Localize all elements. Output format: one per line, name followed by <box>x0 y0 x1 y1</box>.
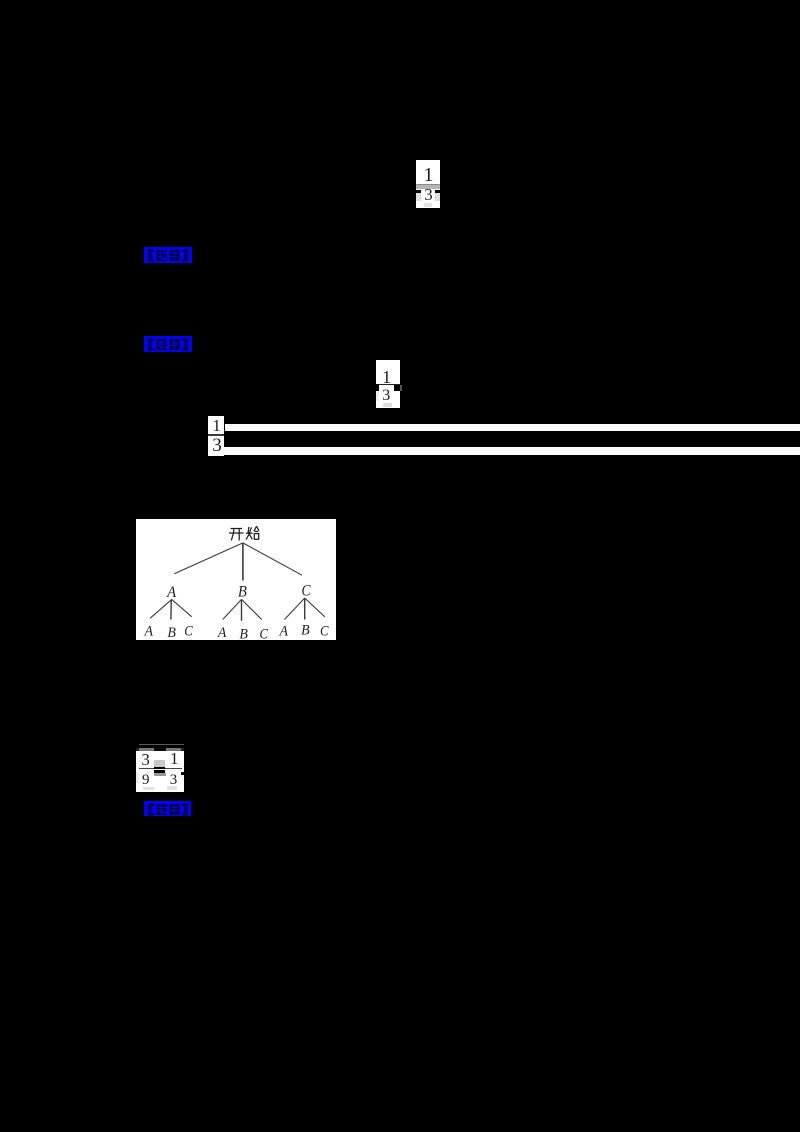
svg-text:C: C <box>184 624 193 640</box>
svg-text:B: B <box>301 622 310 638</box>
branches level 2 <box>150 598 325 621</box>
small fraction 1/3 at line start <box>208 416 224 456</box>
开 <box>229 529 244 541</box>
branches level 1 <box>174 543 302 581</box>
blue label 3 <box>144 801 191 817</box>
level-2 labels <box>166 583 311 602</box>
equation image: 3/9 = 1/3 <box>139 744 184 745</box>
svg-text:B: B <box>238 584 247 601</box>
svg-text:A: A <box>279 624 289 640</box>
white bar row 1 <box>225 424 800 432</box>
equation image: fraction 1/3 (second) <box>376 360 400 408</box>
tree diagram image <box>136 519 336 640</box>
level-3 labels <box>144 622 329 642</box>
svg-text:A: A <box>166 584 176 601</box>
svg-text:C: C <box>259 626 268 640</box>
svg-text:B: B <box>239 626 248 640</box>
svg-text:A: A <box>144 624 154 640</box>
svg-text:A: A <box>217 625 227 640</box>
equation image: fraction 1/3 (first) <box>416 160 440 208</box>
blue label 2 <box>144 336 192 352</box>
white bar row 2 <box>216 447 800 455</box>
svg-text:C: C <box>320 624 329 640</box>
始 <box>246 526 259 539</box>
blue label 1 <box>144 247 192 263</box>
svg-text:B: B <box>167 625 176 640</box>
svg-text:C: C <box>302 583 311 600</box>
